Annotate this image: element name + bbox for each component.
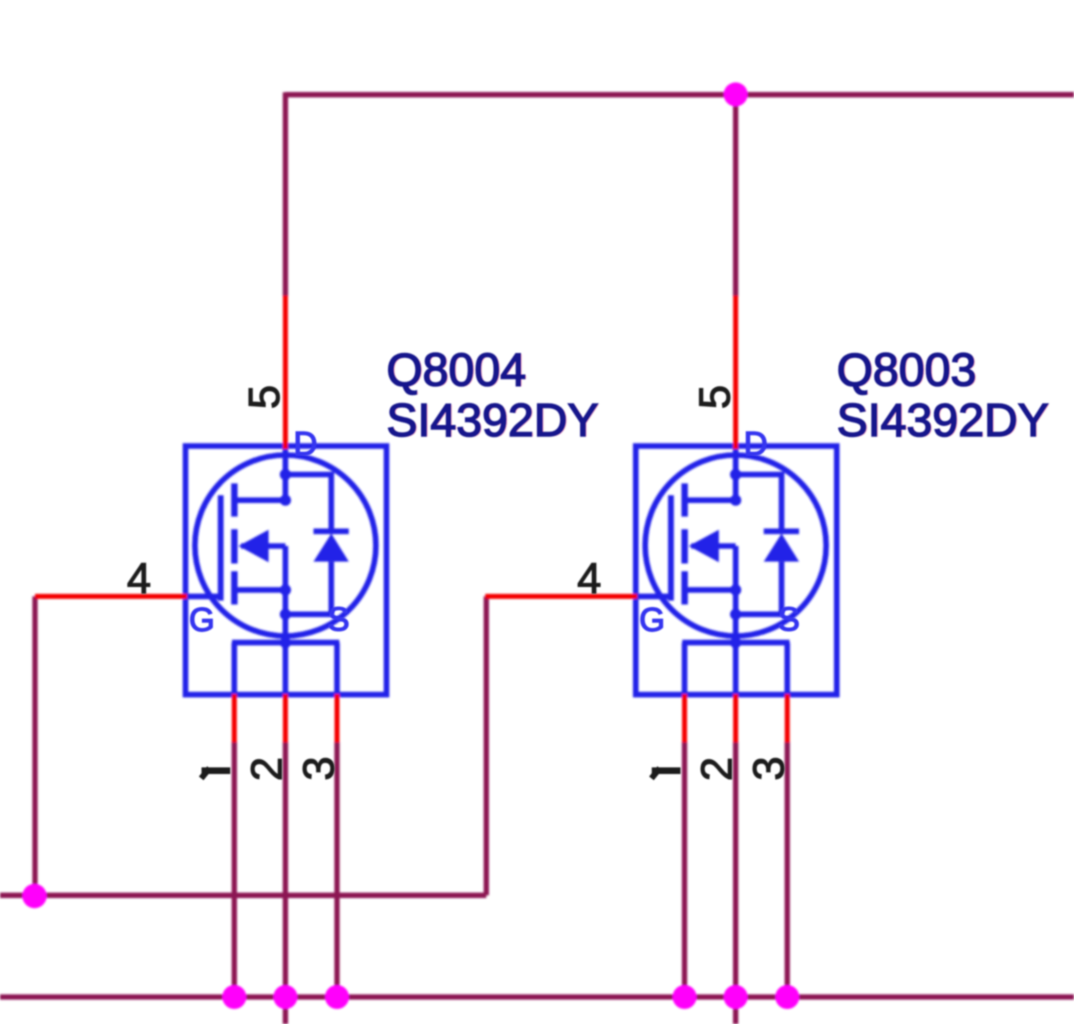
svg-text:Q8003: Q8003	[837, 344, 977, 396]
svg-text:Q8004: Q8004	[387, 344, 527, 396]
svg-text:SI4392DY: SI4392DY	[387, 394, 599, 446]
svg-text:SI4392DY: SI4392DY	[837, 394, 1049, 446]
